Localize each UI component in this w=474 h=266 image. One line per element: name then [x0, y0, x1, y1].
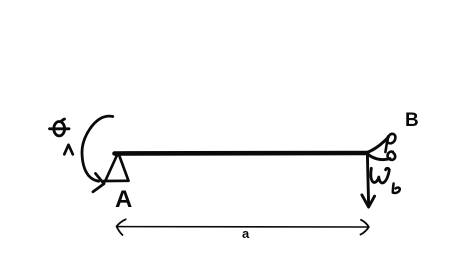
label a (dimension) [242, 226, 249, 241]
rho glyph stem [385, 137, 388, 153]
theta symbol [50, 119, 70, 136]
theta subscript caret [64, 145, 73, 155]
beam [115, 151, 368, 156]
b subscript handwritten [393, 184, 400, 193]
rotation arrow at A [82, 116, 113, 181]
dimension line [117, 226, 368, 228]
label A [115, 186, 132, 214]
load arrow shaft at B [367, 155, 368, 205]
small hook below [388, 152, 396, 160]
end B upper ray [367, 137, 388, 152]
W handwritten [371, 168, 389, 183]
end B lower ray [367, 154, 390, 160]
dimension left arrowhead [117, 219, 126, 235]
dimension right arrowhead [361, 220, 369, 235]
label B [405, 110, 419, 132]
load arrowhead [362, 195, 375, 207]
rho glyph loop [387, 134, 395, 144]
rotation arrowhead [93, 174, 104, 192]
support triangle A [104, 153, 129, 182]
